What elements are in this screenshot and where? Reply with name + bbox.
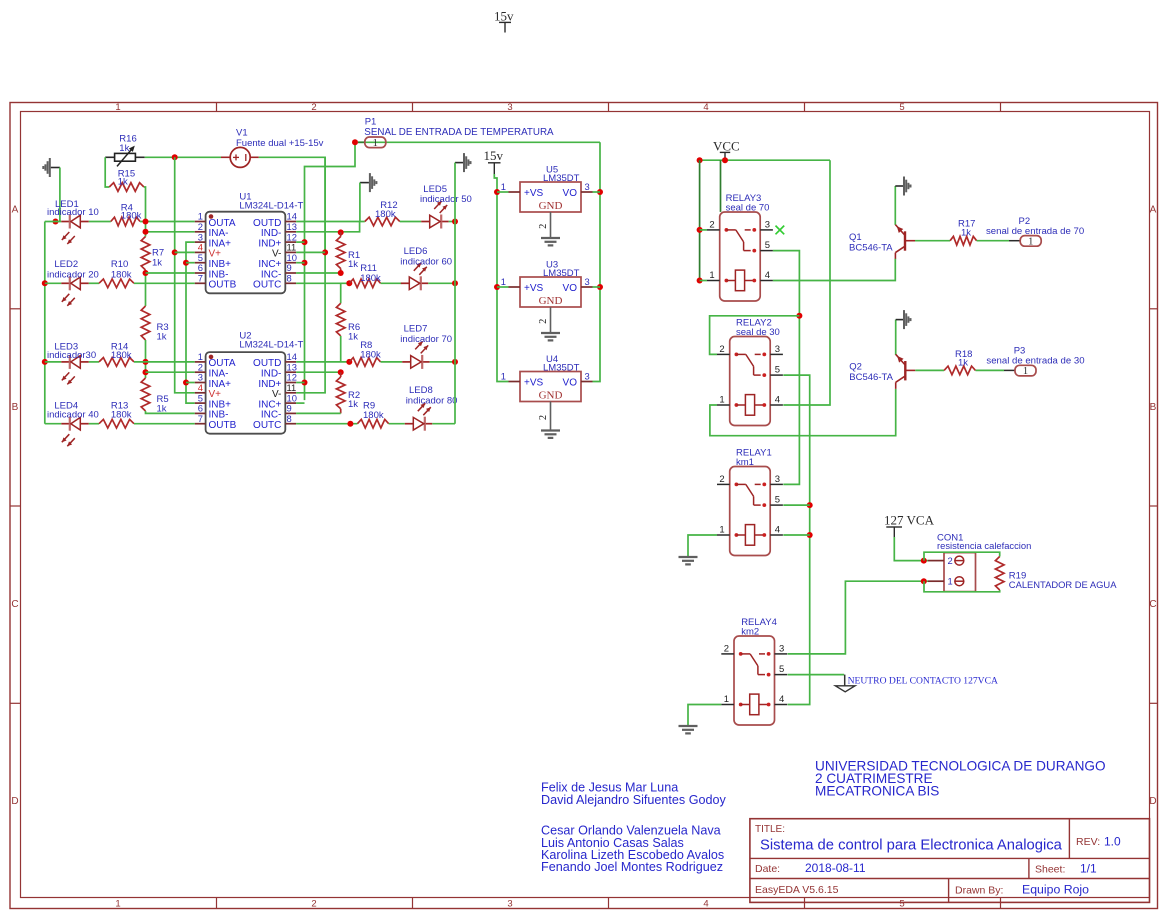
junction LED1 row / ground (53, 219, 59, 225)
wire Q1 emitter to ground (894, 186, 896, 225)
resistor R12 (365, 200, 400, 226)
svg-text:indicador 20: indicador 20 (47, 269, 99, 280)
relay RELAY4 (721, 617, 787, 725)
junction U2 pin12 (302, 380, 308, 386)
svg-text:3: 3 (765, 219, 770, 230)
svg-text:1/1: 1/1 (1080, 862, 1097, 876)
svg-text:4: 4 (775, 525, 780, 536)
wire LED3 to R14 (89, 361, 99, 363)
wire U2 pin12 row (296, 382, 304, 384)
junction RELAY1 pin5 (807, 502, 813, 508)
resistor R10 (99, 259, 134, 288)
svg-text:A: A (1150, 205, 1157, 216)
svg-text:180k: 180k (111, 410, 132, 421)
svg-text:BC546-TA: BC546-TA (849, 242, 893, 253)
resistor R9 (357, 401, 388, 428)
junction P1 (352, 139, 358, 145)
wire 15v supply bus (494, 174, 508, 382)
svg-text:1k: 1k (961, 228, 971, 239)
resistor R18 (944, 349, 975, 375)
op-amp U2 LM324L-D14-T (195, 331, 304, 434)
temperature sensor U5 LM35DT (501, 165, 593, 246)
wire U1 pin9 row (296, 272, 341, 274)
svg-text:2: 2 (538, 319, 549, 324)
svg-text:1: 1 (501, 370, 506, 381)
wire VCC to RELAY3 top (720, 160, 722, 212)
svg-text:1k: 1k (152, 258, 162, 269)
LED LED8 (405, 385, 458, 431)
wire LED anode bus (left) (44, 222, 46, 424)
wire RELAY3 pin5 down (773, 251, 800, 485)
svg-text:4: 4 (703, 899, 708, 910)
junction U5 pin1 (494, 189, 500, 195)
wire U1 pin6 row (146, 272, 195, 274)
wire LED5 to bus (449, 221, 455, 223)
resistor R6 (336, 303, 360, 342)
svg-text:OUTB: OUTB (209, 420, 237, 431)
wire U3 pin1 row (497, 286, 509, 288)
wire U2 pin3 row (186, 382, 195, 384)
svg-text:1k: 1k (348, 259, 358, 270)
svg-text:3: 3 (775, 344, 780, 355)
wire U1 pin10 row (296, 262, 304, 264)
svg-text:7: 7 (198, 413, 203, 424)
svg-text:1: 1 (719, 525, 724, 536)
wire U3 pin3 row (593, 286, 601, 288)
wire RELAY3 pin1 link (700, 280, 707, 282)
wire R8 to LED7 (381, 361, 403, 363)
svg-text:5: 5 (779, 664, 784, 675)
svg-text:D: D (1149, 796, 1156, 807)
svg-text:OUTB: OUTB (209, 280, 237, 291)
svg-text:indicador 10: indicador 10 (47, 207, 99, 218)
wire R10 to U1 pin7 (134, 282, 195, 284)
relay RELAY2 (717, 318, 783, 426)
svg-text:4: 4 (703, 102, 708, 113)
wire U1 pin2 row (146, 231, 195, 233)
wire CON1 pin1 loop to R19 bottom (924, 581, 1000, 592)
junction U2 pin1 row (143, 359, 149, 365)
junction pin2 row (143, 229, 149, 235)
wire INA+ net (186, 242, 195, 403)
wire LED1 to R4 (89, 221, 111, 223)
svg-text:2: 2 (724, 643, 729, 654)
wire U1 pin4 row (175, 251, 195, 253)
junction CON1 pin1 (921, 578, 927, 584)
svg-text:1: 1 (501, 276, 506, 287)
svg-text:Fenando Joel Montes Rodriguez: Fenando Joel Montes Rodriguez (541, 860, 723, 874)
temperature sensor U3 LM35DT (501, 260, 593, 341)
junction U2 pin2 row (143, 369, 149, 375)
svg-text:127 VCA: 127 VCA (884, 513, 935, 528)
net flag 127 VCA (884, 513, 935, 538)
wire RELAY2 pin5 drop (783, 375, 809, 704)
wire LED7 to bus (430, 361, 455, 363)
junction VCC rail left (697, 157, 703, 163)
wire R6 to U2 pin14 row (340, 336, 342, 362)
wire R15 to V+ column (144, 187, 146, 237)
LED LED3 (47, 342, 96, 385)
svg-text:3: 3 (779, 643, 784, 654)
svg-text:1k: 1k (958, 358, 968, 369)
junction LED6 bus (452, 280, 458, 286)
svg-text:1k: 1k (118, 177, 128, 188)
svg-text:indicador 60: indicador 60 (400, 256, 452, 267)
wire R4 to U1 pin1 (140, 221, 195, 223)
junction R9 left (347, 421, 353, 427)
wire RELAY1 pin4 link (783, 534, 809, 536)
svg-text:2: 2 (538, 415, 549, 420)
ground flag (LED bus) (455, 153, 472, 172)
junction LED7 bus (452, 359, 458, 365)
wire ground to R12 row (359, 183, 361, 222)
connector P1 (358, 117, 554, 149)
svg-text:SENAL DE ENTRADA DE TEMPERATUR: SENAL DE ENTRADA DE TEMPERATURA (364, 127, 554, 138)
wire P1 to LM35 column (365, 141, 600, 143)
wire RELAY3 pin2 link (700, 229, 707, 231)
svg-text:1: 1 (719, 395, 724, 406)
svg-text:1: 1 (373, 138, 378, 149)
junction R4/R15/pin1 (143, 219, 149, 225)
wire pot-left to R15 (105, 157, 109, 187)
wire U2 pin9 row (296, 412, 341, 414)
wire V+ net (175, 157, 195, 392)
wire LED3 row left (45, 361, 62, 363)
junction R1 bottom (338, 270, 344, 276)
svg-text:1: 1 (1023, 366, 1028, 377)
svg-text:Sheet:: Sheet: (1035, 864, 1065, 876)
university heading text (815, 759, 1106, 799)
wire ground to LED1 row (59, 168, 61, 222)
svg-text:NEUTRO DEL CONTACTO 127VCA: NEUTRO DEL CONTACTO 127VCA (848, 676, 998, 687)
svg-text:VCC: VCC (713, 139, 740, 154)
svg-text:BC546-TA: BC546-TA (849, 372, 893, 383)
wire R14 to U2 pin1 (134, 361, 195, 363)
resistor R7 (141, 237, 164, 271)
ground flag (Q2) (903, 310, 905, 329)
svg-text:LM324L-D14-T: LM324L-D14-T (239, 340, 303, 351)
wire R11 to LED6 (381, 282, 402, 284)
wire LED4 to R13 (89, 423, 99, 425)
svg-text:GND: GND (539, 390, 563, 402)
svg-text:4: 4 (765, 270, 770, 281)
junction relay2 branch (796, 313, 802, 319)
svg-text:2018-08-11: 2018-08-11 (805, 861, 866, 875)
svg-text:1: 1 (709, 270, 714, 281)
junction R8 left (346, 359, 352, 365)
svg-text:R10: R10 (111, 259, 128, 270)
svg-text:3: 3 (585, 181, 590, 192)
junction RELAY3 pin1 (697, 278, 703, 284)
svg-text:LED2: LED2 (54, 259, 78, 270)
wire RELAY4 pin1 to ground (688, 705, 721, 727)
wire V- column (296, 157, 325, 392)
wire Q2 base to R18 (915, 369, 944, 371)
svg-text:2: 2 (719, 474, 724, 485)
svg-text:indicador 40: indicador 40 (47, 410, 99, 421)
wire U2 pin13 row (296, 371, 341, 373)
resistor R5 (141, 378, 168, 415)
wire RELAY1 pin1 to ground (688, 535, 717, 557)
svg-text:Fuente dual +15-15v: Fuente dual +15-15v (236, 138, 324, 149)
svg-text:180k: 180k (360, 273, 381, 284)
wire U1 pin8 row (296, 282, 349, 284)
wire R3 to R5 (145, 340, 147, 378)
svg-text:VO: VO (563, 283, 578, 294)
wire U2 pin8 row (296, 423, 357, 425)
svg-text:LM324L-D14-T: LM324L-D14-T (239, 201, 303, 212)
svg-text:EasyEDA V5.6.15: EasyEDA V5.6.15 (755, 884, 839, 896)
net flag VCC (713, 139, 740, 161)
svg-text:David Alejandro Sifuentes Godo: David Alejandro Sifuentes Godoy (541, 793, 727, 807)
junction U1 pin5 (183, 260, 189, 266)
svg-text:Q1: Q1 (849, 232, 862, 243)
wire U5 pin3 row (593, 191, 601, 193)
junction LED3 row (42, 359, 48, 365)
svg-text:8: 8 (287, 273, 292, 284)
svg-text:1: 1 (1028, 237, 1033, 248)
connector P3 (986, 346, 1084, 378)
junction R11 left (346, 280, 352, 286)
net flag 15v (top) (494, 8, 514, 32)
junction U1 pin4 (172, 249, 178, 255)
svg-text:A: A (12, 205, 19, 216)
ground flag (left of LED1) (42, 158, 60, 177)
svg-text:TITLE:: TITLE: (755, 824, 785, 835)
relay RELAY3 (707, 193, 773, 301)
resistor R15 (109, 169, 144, 192)
wire RELAY4 pin5 to NEUTRO (788, 674, 845, 676)
svg-text:3: 3 (585, 276, 590, 287)
svg-text:1: 1 (115, 899, 120, 910)
wire LED8 to bus (432, 423, 455, 425)
wire LED2 to R10 (89, 282, 99, 284)
wire R18 to P3 (976, 369, 1005, 371)
resistor R14 (99, 342, 134, 367)
resistor R17 (950, 219, 977, 246)
svg-text:3: 3 (507, 102, 512, 113)
svg-text:1: 1 (115, 102, 120, 113)
svg-text:180k: 180k (111, 350, 132, 361)
junction U1 pin6 row (143, 270, 149, 276)
LED LED1 (47, 199, 99, 244)
wire CON1 pin2 loop to R19 top (924, 552, 1000, 560)
potentiometer R16 (105, 134, 145, 167)
svg-text:180k: 180k (360, 350, 381, 361)
connector CON1 (928, 533, 1031, 592)
svg-text:15v: 15v (484, 148, 504, 163)
junction U1 pin10 (302, 260, 308, 266)
wire RELAY1 pin5 link (783, 504, 809, 506)
junction LED2 row (42, 280, 48, 286)
svg-text:Sistema de control para Electr: Sistema de control para Electronica Anal… (760, 838, 1063, 854)
svg-text:1: 1 (501, 181, 506, 192)
ground flag (Q1) (903, 177, 905, 196)
svg-text:+VS: +VS (524, 283, 544, 294)
svg-text:D: D (11, 796, 18, 807)
svg-text:1.0: 1.0 (1104, 835, 1121, 849)
net label NEUTRO DEL CONTACTO 127VCA (835, 675, 998, 692)
svg-text:Drawn By:: Drawn By: (955, 885, 1003, 897)
svg-text:indicador 70: indicador 70 (400, 334, 452, 345)
title block (750, 819, 1150, 903)
svg-text:B: B (1150, 402, 1157, 413)
resistor R4 (111, 202, 142, 225)
wire VCC rail (700, 159, 830, 161)
wire VCC drop to RELAY2 pin4 (783, 160, 830, 405)
LED LED6 (400, 246, 452, 290)
svg-text:GND: GND (539, 200, 563, 212)
svg-text:MECATRONICA BIS: MECATRONICA BIS (815, 784, 939, 799)
svg-text:2: 2 (538, 224, 549, 229)
svg-text:15v: 15v (494, 8, 514, 23)
LED LED5 (420, 184, 472, 229)
junction R2 top (338, 369, 344, 375)
wire Q1 collector to RELAY3 pin4 (773, 259, 895, 281)
wire U5 pin1 row (497, 191, 509, 193)
wire VCC left drop (699, 160, 701, 280)
svg-text:CALENTADOR DE AGUA: CALENTADOR DE AGUA (1009, 579, 1117, 590)
temperature sensor U4 LM35DT (501, 354, 593, 438)
svg-text:7: 7 (198, 273, 203, 284)
junction U2 pin3 (183, 380, 189, 386)
ground (RELAY4) (679, 725, 698, 727)
svg-text:C: C (1149, 599, 1156, 610)
svg-text:180k: 180k (111, 269, 132, 280)
wire V1 to V- column (259, 157, 325, 252)
svg-text:5: 5 (765, 240, 770, 251)
svg-text:Equipo Rojo: Equipo Rojo (1022, 883, 1089, 897)
svg-text:Q2: Q2 (849, 362, 862, 373)
svg-text:resistencia calefaccion: resistencia calefaccion (937, 540, 1031, 551)
resistor R3 (141, 306, 168, 343)
wire U1 pin13 row (296, 222, 360, 232)
LED LED4 (47, 400, 99, 446)
svg-text:3: 3 (775, 474, 780, 485)
wire Q1 base to R17 (915, 240, 950, 242)
svg-text:OUTC: OUTC (253, 420, 281, 431)
wire branch to RELAY2 pin2 (710, 316, 800, 355)
net flag 15v (LM35) (484, 148, 504, 174)
svg-text:senal de entrada de 30: senal de entrada de 30 (986, 355, 1084, 366)
connector P2 (986, 216, 1084, 248)
svg-text:180k: 180k (363, 410, 384, 421)
wire P1 down (305, 142, 356, 400)
svg-text:indicador30: indicador30 (47, 350, 96, 361)
voltage source V1 (221, 128, 324, 168)
no-connect X (RELAY3 pin3) (776, 226, 785, 235)
wire R5 to U2 pin6 (146, 411, 195, 413)
wire LM35 output bus (593, 142, 601, 381)
svg-text:1: 1 (724, 694, 729, 705)
transistor Q2 (849, 354, 915, 389)
wire LED4 row left (45, 423, 62, 425)
svg-text:2: 2 (311, 899, 316, 910)
svg-text:indicador 50: indicador 50 (420, 194, 472, 205)
svg-text:5: 5 (775, 495, 780, 506)
svg-text:VO: VO (563, 188, 578, 199)
relay RELAY1 (717, 448, 783, 556)
svg-text:2: 2 (719, 344, 724, 355)
wire U1 pin12 row (296, 241, 304, 243)
svg-text:8: 8 (287, 413, 292, 424)
svg-text:2: 2 (311, 102, 316, 113)
junction U3 pin1 (494, 284, 500, 290)
wire LED cathode bus (454, 163, 456, 424)
wire LED6 to bus (428, 282, 455, 284)
svg-text:C: C (11, 599, 18, 610)
svg-text:4: 4 (779, 694, 784, 705)
svg-text:B: B (12, 402, 19, 413)
wire R9 to LED8 (389, 423, 405, 425)
svg-text:180k: 180k (375, 209, 396, 220)
op-amp U1 LM324L-D14-T (195, 192, 304, 294)
wire U2 pin2 row (146, 371, 195, 373)
ground stem Q1 (895, 185, 903, 187)
wire R6 link (340, 283, 342, 303)
wire RELAY4 pin3 to CON1 (788, 581, 928, 654)
resistor R2 (336, 372, 360, 413)
ground stem Q2 (896, 319, 904, 321)
wire 127VCA to CON1 pin2 (894, 537, 928, 561)
wire R17 to P2 (977, 240, 1009, 242)
resistor R11 (349, 263, 381, 288)
junction U5 pin3 (597, 189, 603, 195)
junction VCC stem (722, 157, 728, 163)
svg-text:1k: 1k (157, 332, 167, 343)
svg-text:3: 3 (585, 370, 590, 381)
LED LED7 (400, 324, 452, 369)
svg-text:1k: 1k (348, 399, 358, 410)
resistor R13 (99, 400, 134, 428)
wire U2 pin14 row (296, 361, 349, 363)
svg-text:5: 5 (775, 365, 780, 376)
junction CON1 pin2 (921, 558, 927, 564)
junction U3 pin3 (597, 284, 603, 290)
resistor R1 (336, 232, 360, 273)
wire U1 pin14 row (296, 221, 365, 223)
wire R12 to LED5 (400, 221, 421, 223)
team names text (541, 781, 727, 875)
svg-text:1k: 1k (119, 143, 129, 154)
junction U1 pin11 (322, 249, 328, 255)
wire U1 pin11 row (296, 251, 325, 253)
svg-text:LED7: LED7 (404, 324, 428, 335)
svg-text:indicador 80: indicador 80 (406, 395, 458, 406)
wire Q2 emitter to ground (895, 320, 897, 355)
LED LED2 (47, 259, 99, 306)
wire LED2 row left (45, 282, 62, 284)
junction LED5 bus (452, 219, 458, 225)
svg-text:2: 2 (948, 555, 953, 566)
junction RELAY3 pin2 (697, 227, 703, 233)
junction V1 wire / V+ column (172, 154, 178, 160)
svg-text:5: 5 (899, 899, 904, 910)
svg-text:3: 3 (507, 899, 512, 910)
svg-text:OUTC: OUTC (253, 280, 281, 291)
resistor R8 (349, 340, 381, 366)
svg-text:5: 5 (899, 102, 904, 113)
svg-text:1: 1 (948, 576, 953, 587)
svg-text:Date:: Date: (755, 863, 780, 875)
wire R13 to U2 pin7 (134, 423, 195, 425)
wire RELAY2 pin1 to Q2 (710, 389, 896, 436)
transistor Q1 (849, 225, 915, 260)
svg-text:180k: 180k (121, 211, 142, 222)
wire pot-right to V1 (145, 156, 221, 158)
wire U1 pin5 row (186, 262, 195, 264)
svg-text:+VS: +VS (524, 378, 544, 389)
